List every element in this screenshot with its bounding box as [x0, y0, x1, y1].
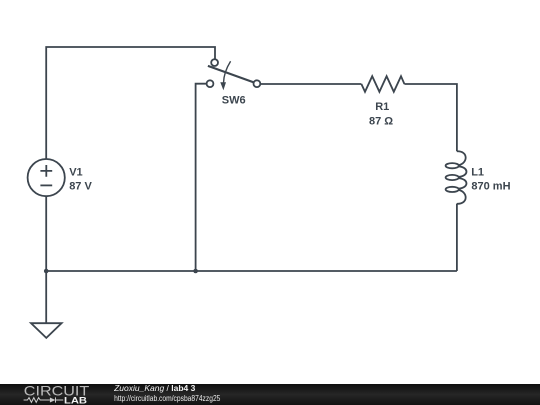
- svg-text:87 V: 87 V: [69, 181, 92, 193]
- svg-text:V1: V1: [69, 166, 82, 178]
- svg-text:Zuoxiu_Kang / lab4 3: Zuoxiu_Kang / lab4 3: [113, 383, 196, 393]
- svg-text:R1: R1: [375, 101, 389, 113]
- svg-text:87 Ω: 87 Ω: [369, 115, 393, 127]
- svg-text:http://circuitlab.com/cpsba874: http://circuitlab.com/cpsba874zzg25: [114, 393, 221, 403]
- svg-text:LAB: LAB: [64, 396, 87, 405]
- svg-text:L1: L1: [471, 166, 484, 178]
- svg-text:SW6: SW6: [222, 95, 246, 107]
- svg-text:870 mH: 870 mH: [471, 180, 510, 192]
